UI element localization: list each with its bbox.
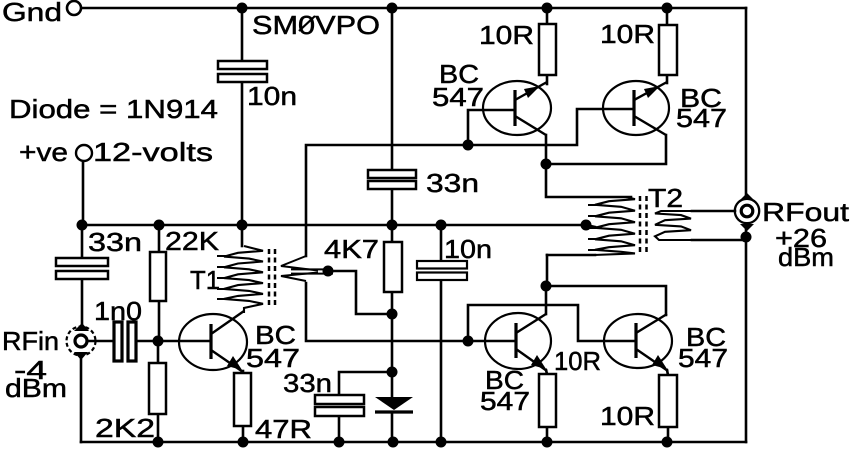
wire T2 primary bottom down to node B xyxy=(546,255,549,286)
junction bottom rail / R8 xyxy=(662,437,673,448)
svg-text:47R: 47R xyxy=(255,414,312,444)
svg-text:Gnd: Gnd xyxy=(2,0,62,27)
junction bottom rail / 2K2 xyxy=(153,437,164,448)
svg-text:10n: 10n xyxy=(444,234,492,264)
svg-text:22K: 22K xyxy=(165,226,220,256)
transistor Q4 BC547 xyxy=(485,313,551,371)
wire diode D1 to bottom rail xyxy=(391,414,394,442)
wire RFin to 1n0 cap C3 xyxy=(89,340,114,343)
wire T1 secondary top to Q2/Q3 base line xyxy=(306,109,633,256)
wire Q5 emitter to 10R resistor R8 xyxy=(667,370,668,375)
wire 33n cap C6 to bottom rail xyxy=(338,416,341,442)
node A emitters Q2 Q3 xyxy=(541,159,552,170)
svg-text:+ve: +ve xyxy=(19,137,68,167)
junction T1 secondary tap xyxy=(323,266,334,277)
transformer T2 secondary winding xyxy=(655,211,744,240)
transistor Q1 BC547 xyxy=(179,311,247,372)
capacitor C4 33n (middle) xyxy=(368,170,416,189)
svg-text:T2: T2 xyxy=(648,183,683,213)
wire 33n cap C2 to RFin terminal xyxy=(81,279,84,328)
wire bottom rail xyxy=(81,441,746,444)
svg-text:10n: 10n xyxy=(247,81,297,111)
resistor R7 10R (bottom left) xyxy=(539,374,556,427)
wire top ground rail xyxy=(81,7,746,10)
resistor R4 4K7 xyxy=(384,242,402,292)
wire 10R resistor R7 to bottom rail xyxy=(546,427,549,442)
svg-text:33n: 33n xyxy=(283,368,332,398)
wire mid rail to 33n cap C2 xyxy=(81,225,84,258)
junction top rail / R5 xyxy=(542,3,553,14)
svg-text:10R: 10R xyxy=(600,401,655,431)
wire top rail to 10n cap C1 xyxy=(241,8,244,61)
wire Q2 emitter down to node A xyxy=(545,135,548,164)
junction base line / Q4 xyxy=(463,336,474,347)
svg-text:547: 547 xyxy=(676,103,727,133)
terminal RFout xyxy=(735,193,759,231)
wire 2K2 resistor R2 to bottom rail xyxy=(157,414,160,442)
wire Q2 base drop xyxy=(468,110,515,145)
wire resistor R5 to Q2 collector xyxy=(546,75,549,84)
wire bias node to diode D1 xyxy=(391,372,394,397)
svg-text:10R: 10R xyxy=(600,19,655,49)
svg-text:33n: 33n xyxy=(426,168,479,198)
svg-text:547: 547 xyxy=(480,386,530,416)
line slash through zero of SM0VPO xyxy=(299,16,315,31)
wire mid rail to T1 primary top xyxy=(241,225,244,246)
wire bias node left to 33n cap C6 xyxy=(339,372,392,395)
terminal Gnd xyxy=(67,1,81,15)
wire T1 secondary centre tap to 4K7 bottom node xyxy=(332,271,392,314)
capacitor C1 10n (top) xyxy=(218,61,267,82)
wire Q4/Q5 base bridge xyxy=(468,305,635,341)
wire node A down to T2 primary top xyxy=(546,164,631,197)
svg-text:547: 547 xyxy=(678,343,728,373)
wire 4K7 resistor R4 to node xyxy=(391,292,394,314)
svg-text:Diode = 1N914: Diode = 1N914 xyxy=(9,94,218,124)
diode D1 1N914 xyxy=(375,397,413,412)
junction top rail / C1 xyxy=(237,3,248,14)
wire Q1 emitter to 47R resistor R3 xyxy=(242,371,245,373)
junction bias node diode/33n xyxy=(387,367,398,378)
transformer T1 secondary winding xyxy=(281,256,333,281)
transistor Q5 BC547 xyxy=(604,314,672,371)
node B collectors Q4 Q5 / T2 bottom xyxy=(541,281,552,292)
transformer T2 primary winding xyxy=(546,197,635,255)
wire T2 secondary bottom to output node xyxy=(692,239,743,242)
junction mid rail / T1 top xyxy=(237,220,248,231)
capacitor C6 33n (bottom) xyxy=(315,395,364,416)
wire +ve terminal down to mid rail xyxy=(82,161,85,225)
terminal +ve 12-volts xyxy=(76,145,92,161)
junction bottom rail / C6 xyxy=(334,437,345,448)
wire mid rail to 4K7 resistor R4 xyxy=(391,225,394,242)
junction bottom rail / R7 xyxy=(542,437,553,448)
wire T1 secondary bottom to Q4/Q5 base line xyxy=(306,283,514,341)
svg-text:RFin: RFin xyxy=(2,326,59,356)
junction top rail / C4 xyxy=(387,3,398,14)
terminal RFin xyxy=(67,323,96,360)
wire node B to Q4 collector xyxy=(545,286,548,314)
junction top rail / R6 xyxy=(662,3,673,14)
wire T2 centre tap from mid rail xyxy=(586,225,595,227)
transformer T1 core xyxy=(269,249,275,306)
wire Q1 base node to 2K2 resistor R2 xyxy=(157,341,160,363)
capacitor C2 33n (left) xyxy=(56,258,108,279)
junction RFout / T2 bottom xyxy=(741,232,752,243)
wire 10n cap C1 down to +12V mid rail xyxy=(241,82,244,225)
svg-text:1n0: 1n0 xyxy=(94,296,142,326)
junction Q1 base / 22K / 2K2 xyxy=(153,336,164,347)
svg-text:10R: 10R xyxy=(554,346,601,376)
resistor R2 2K2 xyxy=(149,363,166,414)
resistor R1 22K xyxy=(150,252,166,301)
junction bottom rail / diode xyxy=(388,437,399,448)
wire top rail to resistor 10R R5 xyxy=(546,8,549,24)
wire top rail to 33n cap C4 xyxy=(391,8,394,170)
svg-text:12-volts: 12-volts xyxy=(93,137,213,167)
wire T2 primary bottom entry xyxy=(547,254,595,257)
wire 1n0 cap C3 to Q1 base xyxy=(136,340,210,343)
wire right edge from top rail down to RFout xyxy=(745,8,748,198)
junction mid rail / C5 xyxy=(436,220,447,231)
wire top rail to resistor 10R R6 xyxy=(666,8,669,25)
svg-text:2K2: 2K2 xyxy=(95,413,155,443)
wire 47R resistor R3 to bottom rail xyxy=(242,426,245,442)
wire 22K resistor R1 to Q1 base node xyxy=(158,301,161,341)
resistor R8 10R (bottom right) xyxy=(659,375,677,427)
svg-text:4K7: 4K7 xyxy=(324,234,379,264)
svg-text:10R: 10R xyxy=(479,20,534,50)
transistor Q2 BC547 xyxy=(483,81,551,135)
transformer T2 core xyxy=(640,196,647,255)
transformer T1 primary winding xyxy=(224,246,263,313)
transformer T2 primary stubs xyxy=(588,205,597,250)
wire mid rail to 10n cap C5 xyxy=(440,225,443,262)
wire node B to Q5 collector xyxy=(546,286,666,315)
resistor R6 10R (top right) xyxy=(659,25,677,75)
svg-text:dBm: dBm xyxy=(778,242,834,272)
capacitor C3 1n0 (series input) xyxy=(114,322,136,361)
wire 10n cap C5 to bottom rail xyxy=(440,280,443,442)
junction mid rail / T2 centre tap xyxy=(581,220,592,231)
junction base line / Q2 xyxy=(463,140,474,151)
transformer T1 primary stubs xyxy=(217,256,226,299)
wire Q4 emitter to 10R resistor R7 xyxy=(546,370,547,374)
junction bottom rail / C5 xyxy=(436,437,447,448)
wire mid rail to 22K resistor R1 xyxy=(158,225,161,252)
junction mid rail / 22K xyxy=(154,220,165,231)
wire +12V mid rail xyxy=(82,224,588,227)
wire resistor R6 to Q3 collector xyxy=(666,75,669,83)
capacitor C5 10n (middle) xyxy=(417,261,467,280)
wire right edge RFout to bottom rail corner xyxy=(745,224,748,442)
wire Q3 emitter down and left to node A xyxy=(546,135,666,164)
wire 33n cap C4 down to mid rail xyxy=(391,189,394,225)
wire 10R resistor R8 to bottom rail xyxy=(667,427,670,442)
junction mid rail / +ve feed xyxy=(77,220,88,231)
svg-text:dBm: dBm xyxy=(5,373,67,403)
svg-text:33n: 33n xyxy=(88,227,142,257)
transistor Q3 BC547 xyxy=(603,81,669,135)
junction 4K7 bottom xyxy=(387,309,398,320)
svg-text:SM0VPO: SM0VPO xyxy=(252,10,380,40)
junction bottom rail / 47R xyxy=(238,437,249,448)
wire 4K7 node down to bias node xyxy=(391,314,394,372)
wire RFin terminal down to bottom rail xyxy=(80,357,83,442)
resistor R3 47R xyxy=(234,373,251,426)
resistor R5 10R (top left) xyxy=(539,24,556,75)
wire T2 secondary top to RFout xyxy=(692,210,735,213)
junction mid rail / 4K7 xyxy=(387,220,398,231)
svg-text:547: 547 xyxy=(432,82,484,112)
svg-text:T1: T1 xyxy=(190,265,220,295)
